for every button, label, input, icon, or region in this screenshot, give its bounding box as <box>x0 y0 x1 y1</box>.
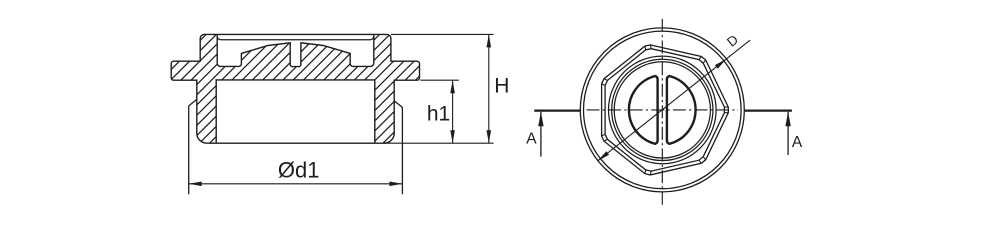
h1 dimension line <box>452 80 454 143</box>
svg-text:Ød1: Ød1 <box>278 157 320 182</box>
plug section outline <box>171 34 419 143</box>
A arrow stem left <box>540 112 542 157</box>
left sealing lip + Od1 extension line <box>189 99 197 194</box>
dim Od1 left arrow <box>189 182 202 187</box>
section cutting line left <box>534 109 580 111</box>
right sealing lip + Od1 extension line <box>394 101 402 194</box>
boss circle r48.1 <box>614 62 710 158</box>
dim Od1 right arrow <box>389 182 402 187</box>
D leader line <box>598 40 751 161</box>
section hatching <box>60 25 552 150</box>
section arrow A right <box>785 112 790 127</box>
knurl notch connectors <box>602 45 729 175</box>
dim D upper arrow <box>715 59 727 69</box>
boss circle r50.65 <box>612 59 713 160</box>
Od1 dimension line <box>189 183 403 185</box>
dim h1 top arrow <box>450 80 455 93</box>
outer flange circle <box>580 28 744 192</box>
coin slot right half-disc <box>667 76 696 144</box>
section arrow A left <box>538 112 543 127</box>
section cutting line right <box>745 109 792 111</box>
svg-text:A: A <box>792 134 803 151</box>
svg-text:h1: h1 <box>427 103 450 126</box>
cap top plate inner edge <box>217 36 374 40</box>
svg-text:H: H <box>494 74 509 97</box>
vertical centerline <box>661 19 663 206</box>
flange chamfer circle <box>584 31 742 189</box>
H dimension line <box>488 34 490 143</box>
boss circle r53.8 <box>609 56 717 164</box>
knurled heptagon outer edge <box>602 45 729 175</box>
horizontal centerline <box>587 109 739 111</box>
dim h1 bottom arrow <box>450 130 455 143</box>
dim H top arrow <box>487 34 492 47</box>
dim D lower arrow <box>598 151 610 161</box>
coin slot left half-disc <box>629 76 658 144</box>
h1 extension line (flange bottom) <box>420 79 459 81</box>
svg-text:A: A <box>526 131 537 148</box>
knurled heptagon inner edge <box>605 49 724 171</box>
A arrow stem right <box>787 112 789 155</box>
dim H bottom arrow <box>487 130 492 143</box>
bottom extension line <box>384 142 494 144</box>
H top extension line <box>391 33 494 35</box>
